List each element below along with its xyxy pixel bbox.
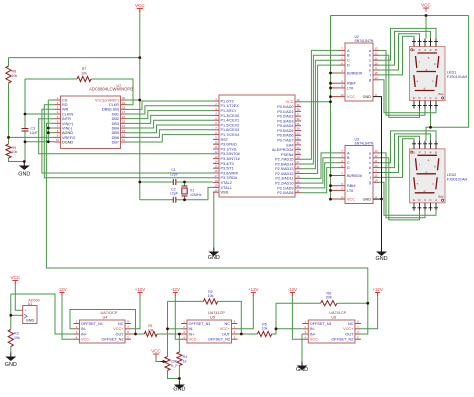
-12V rail U6 — [288, 287, 297, 296]
svg-text:26: 26 — [296, 165, 300, 169]
svg-text:10k: 10k — [12, 74, 18, 78]
wire U2 control pin tie — [331, 87, 340, 89]
wire XTAL2 net left — [176, 181, 213, 183]
svg-text:10k: 10k — [14, 336, 20, 340]
svg-text:33: 33 — [296, 131, 300, 135]
ground below R3 — [5, 353, 17, 369]
wire C3 bottom to DGND node — [23, 131, 26, 162]
wire +12V to U6 VCC+ — [361, 295, 378, 329]
svg-text:VCC: VCC — [347, 198, 355, 202]
svg-text:18: 18 — [214, 179, 218, 183]
svg-text:RBI#: RBI# — [347, 82, 356, 86]
wire U3 b to LED2 — [379, 158, 420, 220]
wire -12V to U4 VCC- — [62, 295, 74, 339]
svg-text:P0.3/AD3: P0.3/AD3 — [277, 119, 293, 123]
wire LED1 bottom anode to rail — [430, 109, 432, 128]
wire VIN- pin — [48, 127, 54, 129]
svg-text:VCC+: VCC+ — [220, 327, 231, 331]
svg-text:DGND: DGND — [62, 140, 73, 144]
svg-text:25: 25 — [296, 170, 300, 174]
resistor R7 — [77, 67, 91, 82]
svg-text:GND: GND — [363, 95, 372, 99]
crystal X1 — [182, 186, 202, 197]
svg-text:10: 10 — [374, 164, 378, 168]
svg-text:P3.6/WR#: P3.6/WR# — [221, 171, 239, 175]
resistor R3 — [8, 330, 20, 347]
svg-text:VCC(orVREF): VCC(orVREF) — [95, 98, 120, 102]
wire DGND row — [25, 141, 55, 143]
wire R6 feedback branch — [276, 303, 321, 329]
svg-text:DB0(LSB): DB0(LSB) — [102, 108, 120, 112]
svg-text:XTAL1: XTAL1 — [221, 186, 232, 190]
svg-text:10k: 10k — [262, 327, 268, 331]
wire AGND pin — [48, 132, 54, 134]
svg-text:13: 13 — [374, 47, 378, 51]
svg-text:12: 12 — [214, 150, 218, 154]
svg-text:OUT: OUT — [345, 332, 354, 336]
svg-text:INTR: INTR — [62, 117, 71, 121]
svg-text:12: 12 — [374, 154, 378, 158]
svg-text:F: F — [419, 150, 421, 154]
svg-text:E: E — [413, 96, 415, 100]
svg-text:VCC-: VCC- — [189, 338, 199, 342]
svg-text:DB3: DB3 — [112, 122, 119, 126]
wire P2.6 to U2 B — [301, 55, 339, 164]
wire VSS to ground — [212, 192, 215, 247]
wire -12V to U6 VCC- — [292, 295, 302, 339]
svg-text:OFFSET_N2: OFFSET_N2 — [331, 338, 353, 342]
svg-text:39: 39 — [296, 103, 300, 107]
display LED1 FJS0101AH — [410, 39, 468, 109]
wire signal node vertical — [10, 294, 12, 330]
svg-text:P2.2/AD10: P2.2/AD10 — [275, 182, 293, 186]
svg-text:VIN(-): VIN(-) — [62, 126, 73, 130]
capacitor C1 — [170, 168, 179, 185]
svg-text:18: 18 — [122, 106, 126, 110]
svg-text:g: g — [369, 78, 371, 82]
wire CLKIN branch — [25, 113, 55, 115]
wire U4 feedback loop — [70, 310, 136, 335]
svg-text:29: 29 — [296, 151, 300, 155]
svg-text:VSS: VSS — [221, 191, 229, 195]
wire U3 control pin tie — [331, 185, 340, 187]
wire U3 control pin tie — [331, 175, 340, 177]
svg-text:SN74LS47N: SN74LS47N — [355, 141, 374, 145]
svg-text:VCC: VCC — [10, 275, 20, 280]
wire U3 control pin tie — [331, 189, 340, 191]
wire R5 to U6 IN- — [272, 329, 303, 334]
ground at U6 IN+ — [296, 362, 308, 374]
svg-text:CS: CS — [62, 98, 68, 102]
-12V rail U5 — [171, 287, 180, 296]
wire U3 g to LED2 — [379, 182, 436, 215]
svg-text:12pF: 12pF — [170, 172, 179, 176]
svg-text:10k: 10k — [208, 294, 214, 298]
svg-text:FJS0101AH: FJS0101AH — [447, 75, 468, 79]
svg-text:10k: 10k — [12, 150, 18, 154]
svg-text:GND: GND — [5, 362, 17, 368]
wire U5 OUT to R5 — [238, 333, 258, 335]
svg-text:A: A — [429, 48, 431, 52]
wire P2.2 to U3 B — [301, 158, 339, 183]
wire divider node to VREF/2 pin — [9, 136, 55, 138]
svg-text:GND: GND — [376, 256, 388, 262]
svg-text:C: C — [347, 161, 350, 165]
wire U2 g to LED1 — [379, 80, 436, 113]
svg-text:Bdp: Bdp — [439, 92, 444, 96]
wire U2 a to LED1 — [379, 50, 425, 115]
svg-text:LED1: LED1 — [447, 71, 457, 75]
wire R9 to ground run — [9, 158, 25, 162]
wire crystal top lead — [184, 182, 186, 186]
wire U3 d to LED2 — [379, 134, 431, 168]
svg-text:IN-: IN- — [310, 327, 316, 331]
wire U2 U3 GND net — [379, 97, 382, 248]
svg-text:P1.2/ECI: P1.2/ECI — [221, 109, 236, 113]
svg-text:SN74LS47N: SN74LS47N — [355, 39, 374, 43]
svg-text:XTAL2: XTAL2 — [221, 181, 232, 185]
svg-text:P0.2/AD2: P0.2/AD2 — [277, 115, 293, 119]
svg-text:P1.6/CEX3: P1.6/CEX3 — [221, 128, 240, 132]
svg-text:+12V: +12V — [372, 287, 382, 292]
svg-text:OFFSET_N2: OFFSET_N2 — [208, 338, 230, 342]
svg-text:B: B — [435, 48, 437, 52]
svg-text:B: B — [435, 150, 437, 154]
svg-text:10: 10 — [56, 138, 60, 142]
svg-text:17: 17 — [214, 174, 218, 178]
wire DB7 to P1.7 — [127, 135, 214, 142]
svg-text:+12V: +12V — [248, 287, 258, 292]
resistor R9 — [6, 144, 18, 158]
wire U2 b to LED1 — [379, 55, 420, 117]
svg-text:BI/RBO#: BI/RBO# — [347, 174, 363, 178]
svg-text:F: F — [419, 48, 421, 52]
svg-text:CLKIN: CLKIN — [62, 112, 73, 116]
wire R1 to U5 IN+ — [157, 333, 181, 335]
wire VCC to R8 top rail — [9, 57, 140, 59]
svg-text:c: c — [369, 161, 371, 165]
wire DB1 to P1.1 — [127, 106, 214, 114]
svg-text:BI/RBO#: BI/RBO# — [347, 71, 363, 75]
wire CS ground net vertical — [47, 100, 49, 142]
wire U2 c to LED1 — [379, 28, 436, 60]
svg-text:+12V: +12V — [135, 287, 145, 292]
svg-text:34: 34 — [296, 127, 300, 131]
resistor R5 — [257, 322, 271, 336]
svg-text:U6: U6 — [331, 315, 336, 319]
svg-text:Bdp: Bdp — [439, 194, 444, 198]
wire CS pin — [48, 99, 54, 101]
wire VCC rail top right — [331, 15, 469, 17]
wire U3 a to LED2 — [379, 153, 425, 218]
svg-text:15: 15 — [374, 71, 378, 75]
svg-text:11: 11 — [215, 145, 218, 149]
svg-text:NC: NC — [348, 322, 354, 326]
wire P2.5 to U2 C — [301, 60, 339, 169]
ground near ADC — [18, 162, 30, 178]
svg-text:11: 11 — [122, 138, 125, 142]
svg-text:d: d — [369, 166, 371, 170]
svg-text:VCC: VCC — [151, 349, 161, 354]
svg-text:PSEN#: PSEN# — [281, 153, 294, 157]
svg-text:16: 16 — [122, 115, 126, 119]
wire U4 OUT node — [131, 333, 144, 335]
wire AD590 signal node — [11, 314, 21, 316]
svg-text:U4: U4 — [103, 315, 108, 319]
wire 8051 VCC to VCC net — [301, 101, 331, 103]
wire DB0 to P1.0 — [127, 101, 214, 109]
svg-text:P1.7/CEX4: P1.7/CEX4 — [221, 133, 240, 137]
wire divider node to R9 — [8, 137, 10, 144]
svg-text:VCC+: VCC+ — [343, 327, 354, 331]
svg-text:13: 13 — [122, 129, 126, 133]
wire R8 to divider node — [8, 83, 10, 137]
svg-text:10: 10 — [374, 61, 378, 65]
svg-text:P3.1/TxD: P3.1/TxD — [221, 147, 237, 151]
svg-text:40: 40 — [296, 98, 300, 102]
wire U3 GND pin — [379, 198, 382, 200]
wire DB4 to P1.4 — [127, 120, 214, 128]
svg-text:IN-: IN- — [189, 327, 195, 331]
svg-text:VCC+: VCC+ — [113, 327, 124, 331]
wire P2.4 to U2 D — [301, 65, 339, 173]
wire R3 to ground — [10, 347, 12, 353]
wire R2 left — [168, 300, 204, 302]
svg-text:LED2: LED2 — [447, 173, 457, 177]
+12V rail U5 — [248, 287, 258, 296]
svg-text:IN-: IN- — [81, 327, 87, 331]
wire U6 IN+ to ground — [301, 334, 303, 362]
svg-text:RBI#: RBI# — [347, 184, 356, 188]
svg-text:LT#: LT# — [347, 86, 354, 90]
wire U3 f to LED2 — [379, 139, 414, 178]
svg-text:19: 19 — [122, 101, 126, 105]
wire U3 c to LED2 — [379, 131, 436, 163]
svg-text:IN+: IN+ — [310, 332, 317, 336]
svg-text:1k: 1k — [183, 359, 187, 363]
microcontroller 8051 — [213, 95, 301, 197]
resistor R6 — [321, 291, 337, 305]
svg-text:b: b — [369, 156, 371, 160]
svg-text:VCC: VCC — [421, 3, 431, 8]
svg-text:23: 23 — [296, 179, 300, 183]
wire signal to U4 IN+ — [11, 294, 74, 334]
wire P2.3 to U3 A — [301, 153, 339, 178]
wire WR to P3.6/WR# — [42, 109, 213, 173]
resistor R8 — [6, 66, 18, 83]
svg-text:C: C — [347, 59, 350, 63]
wire XTAL1 net bottom — [140, 199, 174, 201]
svg-text:CLKR: CLKR — [109, 103, 119, 107]
svg-text:15: 15 — [122, 120, 126, 124]
svg-text:P0.7/AD7: P0.7/AD7 — [277, 138, 293, 142]
svg-text:P1.5/CEX2: P1.5/CEX2 — [221, 123, 240, 127]
svg-text:20: 20 — [122, 96, 126, 100]
wire U2 VCC pin — [331, 96, 340, 98]
svg-text:14: 14 — [214, 160, 218, 164]
svg-text:ALE/PROG#: ALE/PROG# — [272, 148, 294, 152]
capacitor C3 — [11, 127, 39, 135]
svg-text:30: 30 — [296, 146, 300, 150]
svg-text:U1: U1 — [28, 302, 32, 306]
svg-text:e: e — [369, 171, 371, 175]
wire U2 control pin tie — [331, 82, 340, 84]
svg-text:P2.3/AD11: P2.3/AD11 — [275, 177, 293, 181]
VCC symbol top left — [135, 3, 145, 12]
op-amp U4 UA741CP — [74, 311, 132, 343]
svg-text:12pF: 12pF — [170, 192, 179, 196]
wire DB6 to P1.6 — [127, 130, 214, 138]
temperature sensor U1 AD590 — [21, 299, 40, 324]
wire U2 e to LED1 — [379, 34, 420, 70]
wire R7 right to CLKR — [91, 79, 133, 105]
svg-text:DB1: DB1 — [112, 112, 119, 116]
ADC U7 ADC0804LCWM/NOPB — [55, 84, 134, 149]
VCC symbol top right — [421, 3, 431, 12]
svg-text:14: 14 — [122, 124, 126, 128]
svg-text:e: e — [369, 68, 371, 72]
svg-text:12MHz: 12MHz — [190, 193, 202, 197]
wire U2 d to LED1 — [379, 31, 431, 65]
svg-text:LT#: LT# — [347, 189, 354, 193]
svg-text:10k: 10k — [148, 328, 154, 332]
svg-text:GND: GND — [208, 255, 220, 261]
svg-text:11: 11 — [375, 56, 378, 60]
svg-text:P0.1/AD1: P0.1/AD1 — [277, 110, 293, 114]
svg-text:P0.5/AD5: P0.5/AD5 — [277, 129, 293, 133]
svg-text:11: 11 — [375, 159, 378, 163]
svg-text:b: b — [369, 54, 371, 58]
svg-text:OFFSET_N1: OFFSET_N1 — [189, 322, 211, 326]
wire RD to P3.7/RD# — [44, 105, 213, 178]
wire DB2 to P1.2 — [127, 111, 214, 119]
wire VCC rail right edge — [426, 16, 469, 141]
svg-text:d: d — [369, 64, 371, 68]
wire CLKIN node vertical — [24, 79, 26, 128]
svg-text:FJS0101AH: FJS0101AH — [447, 177, 468, 181]
wire DB5 to P1.5 — [127, 125, 214, 133]
svg-text:27: 27 — [296, 160, 300, 164]
svg-text:35: 35 — [296, 122, 300, 126]
wire VIN+ from op-amp output — [46, 123, 367, 303]
wire XTAL2 net to VCC vertical — [140, 181, 174, 183]
svg-text:P1.3/CEX0: P1.3/CEX0 — [221, 114, 240, 118]
svg-text:GND: GND — [26, 319, 35, 323]
wire P2.7 to U2 A — [301, 50, 339, 159]
resistor R4 — [177, 352, 187, 366]
svg-text:DB7: DB7 — [112, 140, 119, 144]
svg-text:VCC: VCC — [347, 95, 355, 99]
svg-text:P3.7/RD#: P3.7/RD# — [221, 176, 238, 180]
svg-text:VCC-: VCC- — [310, 338, 320, 342]
wire R7 left to CLKIN node — [25, 78, 77, 80]
svg-text:12pF: 12pF — [30, 131, 39, 135]
VCC symbol above AD590 — [10, 275, 20, 284]
svg-text:ADC0804LCWM/NOPB: ADC0804LCWM/NOPB — [89, 87, 133, 92]
svg-text:c: c — [369, 59, 371, 63]
svg-text:P2.4/AD12: P2.4/AD12 — [275, 172, 293, 176]
svg-text:GND: GND — [173, 387, 185, 393]
svg-text:12: 12 — [374, 52, 378, 56]
svg-text:20K: 20K — [326, 296, 333, 300]
svg-text:DB2: DB2 — [112, 117, 119, 121]
svg-text:14: 14 — [374, 179, 378, 183]
svg-text:P3.5/T1: P3.5/T1 — [221, 167, 234, 171]
svg-text:36: 36 — [296, 117, 300, 121]
display LED2 FJS0101AH — [410, 141, 468, 211]
svg-text:16: 16 — [214, 169, 218, 173]
wire VCC drop to LED1 anode — [425, 16, 427, 39]
wire VCC net vertical U2 U3 — [330, 16, 332, 200]
wire R6 right to OUT node — [337, 302, 368, 304]
svg-text:P3.0/RxD: P3.0/RxD — [221, 143, 238, 147]
svg-text:20: 20 — [214, 188, 218, 192]
svg-text:WR: WR — [62, 108, 69, 112]
svg-text:14: 14 — [374, 76, 378, 80]
wire +12V to U5 VCC+ — [238, 295, 254, 329]
wire -12V to U5 VCC- — [175, 295, 181, 339]
svg-text:R_P: R_P — [171, 364, 178, 368]
svg-text:P1.1/T2EX: P1.1/T2EX — [221, 104, 240, 108]
svg-text:22: 22 — [296, 184, 300, 188]
svg-text:38: 38 — [296, 108, 300, 112]
svg-text:VREF/2: VREF/2 — [62, 136, 75, 140]
ground below 8051 — [208, 248, 220, 262]
wire XTAL1 net to pin — [176, 187, 213, 199]
svg-text:VCC: VCC — [135, 3, 145, 8]
wire INTR to P3.2/INT0# — [39, 119, 213, 154]
svg-text:P2.7/AD15: P2.7/AD15 — [275, 158, 293, 162]
svg-text:OUT: OUT — [115, 332, 124, 336]
svg-text:32: 32 — [296, 136, 300, 140]
svg-text:D: D — [347, 166, 350, 170]
resistor R2 — [203, 290, 217, 304]
svg-text:P3.2/INT0#: P3.2/INT0# — [221, 152, 241, 156]
svg-text:OFFSET_N1: OFFSET_N1 — [81, 322, 103, 326]
svg-text:-12V: -12V — [57, 287, 66, 292]
svg-text:37: 37 — [296, 112, 300, 116]
svg-text:P0.4/AD4: P0.4/AD4 — [277, 124, 293, 128]
svg-text:DB6: DB6 — [112, 136, 119, 140]
capacitor C2 — [170, 187, 179, 203]
wire VCC to AD590 plus — [15, 283, 20, 310]
svg-text:AGND: AGND — [62, 131, 73, 135]
resistor R1 — [144, 324, 157, 337]
svg-text:P2.5/AD13: P2.5/AD13 — [275, 167, 293, 171]
svg-text:P1.4/CEX1: P1.4/CEX1 — [221, 119, 240, 123]
svg-text:13: 13 — [214, 155, 218, 159]
svg-text:P1.0/T2: P1.0/T2 — [221, 99, 234, 103]
svg-text:-12V: -12V — [288, 287, 297, 292]
svg-text:IN+: IN+ — [81, 332, 88, 336]
svg-text:OFFSET_N1: OFFSET_N1 — [310, 322, 332, 326]
svg-text:EA#: EA# — [286, 143, 294, 147]
svg-text:RD: RD — [62, 103, 68, 107]
svg-text:NC: NC — [118, 322, 124, 326]
VCC symbol at potentiometer — [151, 349, 161, 358]
potentiometer R_P 20K — [161, 357, 179, 371]
svg-text:NC: NC — [225, 322, 231, 326]
svg-text:D: D — [347, 64, 350, 68]
wire U2 f to LED1 — [379, 36, 414, 75]
svg-text:VCC: VCC — [285, 100, 293, 104]
svg-text:10k: 10k — [81, 71, 87, 75]
wire pot wiper from VCC — [156, 356, 162, 362]
wire P2.0 to U3 D — [301, 168, 339, 193]
svg-text:12: 12 — [122, 134, 126, 138]
wire ADC VCC pin — [127, 99, 140, 101]
op-amp U5 UA741CP — [181, 311, 238, 343]
